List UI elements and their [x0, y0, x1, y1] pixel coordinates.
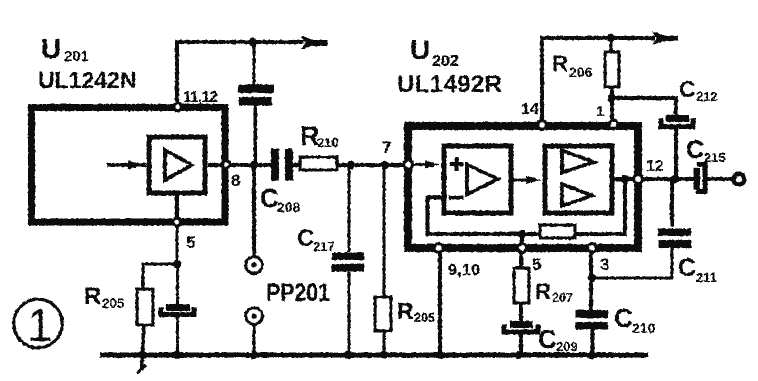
svg-text:U: U — [41, 33, 61, 64]
svg-text:5: 5 — [532, 255, 541, 274]
svg-text:9,10: 9,10 — [448, 262, 480, 279]
svg-text:3: 3 — [600, 255, 609, 274]
svg-text:12: 12 — [646, 158, 664, 175]
svg-text:210: 210 — [317, 135, 339, 150]
svg-text:R: R — [397, 298, 414, 324]
svg-text:C: C — [538, 324, 557, 354]
svg-text:1: 1 — [27, 299, 53, 351]
svg-text:207: 207 — [552, 291, 573, 305]
svg-text:1: 1 — [596, 103, 604, 120]
svg-text:C: C — [686, 136, 704, 164]
svg-text:206: 206 — [569, 64, 593, 80]
svg-text:201: 201 — [64, 48, 89, 65]
svg-text:PP201: PP201 — [266, 279, 330, 307]
svg-text:8: 8 — [231, 171, 240, 190]
svg-text:C: C — [614, 303, 633, 333]
svg-text:C: C — [678, 254, 696, 282]
svg-text:202: 202 — [432, 53, 459, 70]
svg-text:R: R — [535, 279, 551, 304]
svg-text:5: 5 — [186, 233, 195, 252]
svg-text:11,12: 11,12 — [183, 89, 218, 106]
svg-text:208: 208 — [277, 199, 301, 215]
svg-text:209: 209 — [556, 339, 578, 354]
svg-text:212: 212 — [696, 89, 718, 104]
svg-text:211: 211 — [696, 270, 717, 285]
svg-text:UL1492R: UL1492R — [397, 71, 502, 98]
svg-text:215: 215 — [704, 150, 726, 165]
svg-text:R: R — [552, 51, 568, 76]
svg-text:217: 217 — [313, 239, 335, 254]
svg-text:U: U — [410, 34, 430, 65]
svg-text:210: 210 — [632, 320, 656, 336]
svg-text:UL1242N: UL1242N — [38, 67, 136, 93]
svg-text:C: C — [297, 225, 314, 252]
svg-text:205: 205 — [102, 296, 125, 311]
svg-text:7: 7 — [382, 138, 391, 157]
svg-text:205: 205 — [414, 311, 435, 325]
svg-text:R: R — [84, 283, 101, 310]
svg-text:14: 14 — [521, 101, 539, 118]
svg-text:C: C — [679, 76, 696, 102]
